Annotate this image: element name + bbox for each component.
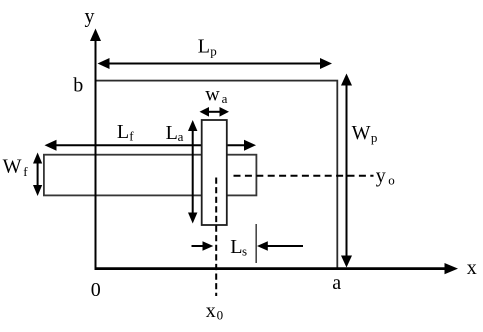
svg-text:a: a [222, 91, 228, 106]
stub edge tick line [255, 224, 257, 263]
feed line rectangle (microstrip feed, Wf wide) [44, 155, 257, 196]
svg-text:s: s [242, 244, 247, 259]
label Ls [230, 236, 247, 259]
svg-text:w: w [205, 83, 220, 105]
svg-text:x: x [206, 300, 216, 322]
label b [73, 75, 83, 97]
label Lp [198, 35, 217, 58]
label x (axis) [467, 257, 477, 279]
dimension arrow Ls left (points right toward x_0) [192, 241, 214, 251]
dimension arrow Lp [98, 58, 333, 69]
label x_0 [206, 300, 223, 323]
svg-text:b: b [73, 75, 83, 97]
svg-text:L: L [230, 236, 242, 258]
svg-text:f: f [129, 128, 134, 143]
svg-text:p: p [371, 130, 378, 145]
svg-text:o: o [388, 172, 395, 187]
label a [332, 272, 341, 294]
dimension arrow Ls right (points left toward stub edge) [257, 241, 303, 251]
svg-text:L: L [166, 122, 178, 144]
svg-text:f: f [23, 164, 28, 179]
svg-text:a: a [178, 129, 184, 144]
svg-text:x: x [467, 257, 477, 279]
label Lf [117, 121, 134, 143]
svg-text:L: L [117, 121, 129, 143]
patch rectangle (Lp x Wp) [96, 81, 338, 269]
dimension arrow La [188, 120, 197, 224]
svg-text:y: y [85, 5, 95, 27]
dimension arrow Lf [45, 140, 257, 151]
svg-text:0: 0 [217, 308, 224, 323]
label La [166, 122, 184, 144]
svg-text:W: W [352, 122, 371, 144]
y-axis [90, 29, 101, 270]
label y_o [376, 165, 395, 188]
svg-text:p: p [210, 43, 217, 58]
x-axis [95, 263, 459, 274]
label Wp [352, 122, 378, 145]
svg-text:L: L [198, 35, 210, 57]
svg-text:W: W [3, 156, 22, 178]
svg-text:a: a [332, 272, 341, 294]
dashed horizontal line y_o [234, 175, 374, 177]
label Wf [3, 156, 29, 180]
aperture slot rectangle (wa x La), white fill covers feed under it [202, 120, 227, 225]
svg-text:y: y [376, 165, 386, 187]
dimension arrow Wf [33, 153, 42, 197]
dimension arrow Wp [341, 74, 352, 268]
svg-text:0: 0 [91, 279, 101, 301]
label wa [205, 83, 227, 106]
dimension arrow wa [200, 107, 230, 117]
label y (axis) [85, 5, 95, 27]
dashed vertical line x_0 [215, 178, 217, 297]
label 0 (origin) [91, 279, 101, 301]
